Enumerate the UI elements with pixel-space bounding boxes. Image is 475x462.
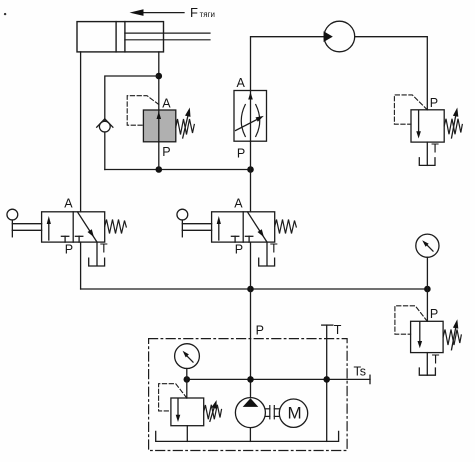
relief valve R1 flow arrow (416, 111, 421, 139)
wire: branch to check valve (105, 76, 159, 121)
electric motor M1 (279, 399, 307, 427)
valve V1 blocked port (75, 236, 82, 242)
svg-text:Ts: Ts (354, 365, 367, 379)
wire: valve V1 port P down (80, 242, 82, 289)
reducing valve pilot line (127, 96, 159, 126)
wire: main pressure rail (81, 288, 428, 290)
svg-text:A: A (237, 76, 246, 90)
reducing valve adjust arrow (183, 108, 191, 139)
junction node (247, 376, 254, 383)
junction node (247, 166, 254, 173)
pump (main) (324, 21, 355, 52)
relief valve R1 pilot line (394, 95, 427, 124)
flow control flow arrow (248, 91, 253, 142)
wire: pump to flow control valve (251, 37, 325, 91)
wire: lower collector rail (105, 169, 251, 171)
wire: check valve to lower rail (104, 132, 106, 170)
tank manifold (156, 431, 339, 441)
pressure gauge G1 (416, 234, 439, 257)
relief valve R2 body (411, 321, 444, 352)
valve V2 body (212, 212, 275, 242)
valve V1 manual lever (7, 209, 42, 237)
relief valve R1 adjust arrow (452, 108, 459, 139)
wire: reducing valve to lower rail (158, 142, 160, 170)
wire: pump to relief valve R1 (355, 37, 428, 110)
svg-text:T: T (432, 353, 440, 367)
valve V2 blocked port (231, 236, 238, 242)
reducing valve flow arrow (157, 110, 162, 142)
relief valve R3 body (171, 398, 204, 426)
junction node (424, 286, 431, 293)
svg-text:T: T (334, 323, 342, 337)
valve V2 manual lever (177, 209, 212, 237)
flow control valve body (234, 91, 267, 142)
valve V2 spring (275, 220, 297, 234)
svg-text:P: P (237, 147, 245, 161)
power unit enclosure (149, 339, 348, 451)
relief valve R3 adjust arrow (210, 400, 217, 421)
junction node (156, 166, 163, 173)
valve V1 blocked port (61, 236, 68, 242)
valve V1 flow arrow position 2 (78, 212, 98, 242)
svg-text:P: P (65, 242, 73, 256)
valve V1 spring (105, 220, 127, 234)
relief valve R2 spring (443, 330, 461, 346)
junction node (184, 376, 191, 383)
wire: cylinder cap side down to valve V1 port A (80, 52, 82, 212)
pressure reducing valve (gray) body (143, 110, 175, 142)
wire: rail down to relief valve R2 (426, 289, 428, 321)
force arrow F тяги (130, 9, 185, 16)
valve V2 blocked port (245, 236, 252, 242)
relief valve R1 spring (444, 119, 462, 135)
svg-text:P: P (430, 96, 438, 110)
svg-text:T: T (100, 241, 108, 255)
relief valve R3 flow arrow (176, 399, 181, 422)
drain test line Ts (327, 375, 370, 383)
svg-text:A: A (162, 97, 171, 111)
wire: power unit internal rail (187, 378, 327, 380)
svg-text:M: M (288, 404, 302, 423)
tank return line T (322, 325, 333, 441)
junction node (247, 286, 254, 293)
svg-text:A: A (234, 197, 243, 211)
cylinder piston (116, 22, 125, 52)
relief valve R2 adjust arrow (452, 319, 459, 350)
tank symbol (89, 258, 105, 266)
wire: relief valve R1 to tank (426, 142, 428, 165)
relief valve R3 pilot line (159, 384, 187, 411)
svg-text:P: P (256, 323, 264, 337)
tank symbol (419, 158, 435, 166)
relief valve R2 flow arrow (418, 322, 423, 348)
tank symbol (419, 368, 435, 375)
valve V2 flow arrow position 1 (217, 216, 221, 240)
svg-text:A: A (64, 197, 73, 211)
svg-text:P: P (430, 307, 438, 321)
flow control throttle arcs (241, 105, 260, 137)
pump P1 (power unit) (235, 398, 265, 428)
tank symbol (259, 258, 275, 266)
svg-text:T: T (431, 142, 439, 156)
junction node (323, 376, 330, 383)
svg-text:тяги: тяги (200, 10, 215, 19)
flow control adjust arrow (236, 116, 264, 131)
wire: pump to tank manifold (249, 428, 251, 442)
reducing valve spring (176, 119, 195, 135)
junction node (156, 73, 163, 80)
check valve (97, 119, 113, 132)
pressure gauge G2 (175, 344, 200, 369)
wire: gauge G1 to rail (426, 257, 428, 289)
wire: valve V2 to tank (266, 242, 268, 265)
wire: relief valve R2 to tank (426, 353, 428, 376)
relief valve R1 body (411, 110, 444, 142)
svg-text:P: P (235, 242, 243, 256)
svg-text:F: F (190, 5, 198, 20)
stray ink dot (4, 13, 6, 15)
wire: flow control valve to valve V2 port A (250, 141, 252, 212)
svg-text:P: P (162, 145, 170, 159)
wire: gauge G2 to rail (186, 369, 188, 380)
valve V1 flow arrow position 1 (47, 216, 51, 240)
cylinder rod (125, 33, 210, 40)
valve V1 body (42, 212, 105, 242)
wire: valve V1 to tank (96, 242, 98, 265)
valve V2 flow arrow position 2 (248, 212, 268, 242)
cylinder body (77, 22, 164, 52)
shaft coupling (266, 406, 280, 419)
relief valve R2 pilot line (395, 306, 427, 334)
wire: valve V2 port P down to power unit (250, 242, 252, 397)
relief valve R3 spring (204, 405, 222, 420)
wire: rail to relief valve R3 (186, 379, 188, 398)
svg-text:T: T (270, 241, 278, 255)
wire: cylinder rod side down to reducing valve (158, 52, 160, 110)
wire: relief valve R3 to tank manifold (186, 426, 188, 442)
